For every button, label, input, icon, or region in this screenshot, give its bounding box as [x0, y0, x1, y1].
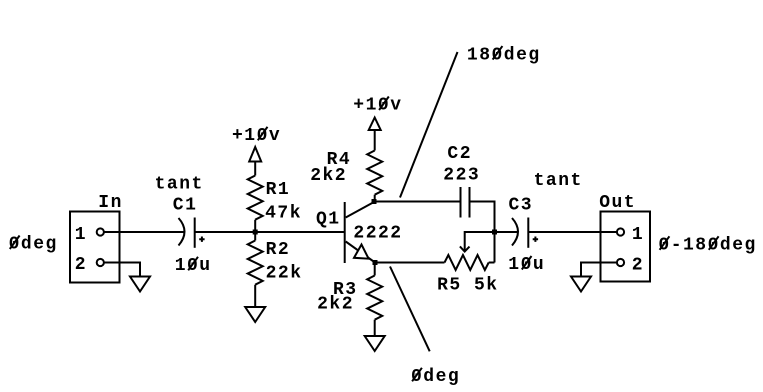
node base divider junction — [253, 230, 258, 235]
node emitter — [373, 260, 378, 265]
power +10v arrow R4 — [369, 118, 381, 151]
slashed zero strokes — [10, 46, 719, 381]
svg-text:Out: Out — [599, 193, 636, 213]
wire C3 to Out pin1 — [528, 231, 617, 233]
svg-text:+10v: +10v — [232, 126, 281, 146]
value 2222 — [353, 224, 402, 244]
pin number 2 Out — [632, 256, 644, 276]
svg-text:10u: 10u — [175, 256, 212, 276]
value 10u C3 — [508, 255, 545, 275]
label Q1 — [316, 210, 341, 230]
wire R1 to node — [254, 220, 256, 232]
label Out — [599, 193, 636, 213]
ground at Out pin2 — [571, 277, 591, 292]
transistor Q1 2222 — [345, 202, 375, 263]
svg-text:0deg: 0deg — [9, 235, 58, 255]
wire emitter to R5 — [375, 262, 445, 264]
label tant C3 — [534, 171, 583, 191]
label R1 — [266, 180, 291, 200]
wire collector to C2 — [374, 201, 461, 203]
label C3 — [509, 195, 534, 215]
svg-text:R2: R2 — [266, 240, 291, 260]
wire Out pin2 to ground — [581, 263, 617, 277]
ground below R2 — [245, 307, 265, 322]
svg-text:R5 5k: R5 5k — [437, 275, 499, 295]
capacitor C1 polarized tant 10u — [179, 218, 205, 248]
pin number 1 Out — [632, 225, 644, 245]
power +10v arrow R1 — [249, 147, 261, 176]
svg-text:Q1: Q1 — [316, 210, 341, 230]
connector In pin 2 circle — [97, 259, 104, 266]
label +10v R4 — [353, 96, 402, 116]
svg-text:0deg: 0deg — [411, 367, 460, 387]
wire C1 to base node — [195, 231, 345, 233]
resistor R1 47k — [248, 176, 263, 220]
label R5 5k — [437, 275, 499, 295]
connector In pin 1 circle — [97, 228, 104, 235]
svg-text:223: 223 — [443, 166, 480, 186]
callout line to 180deg — [400, 52, 458, 198]
svg-text:R1: R1 — [266, 180, 291, 200]
ground at In pin2 — [130, 277, 150, 292]
resistor R4 2k2 — [367, 151, 382, 202]
wire In pin2 to ground — [104, 263, 140, 277]
capacitor C3 polarized tant 10u — [512, 218, 538, 248]
svg-text:22k: 22k — [266, 264, 303, 284]
wire junction to C3 — [495, 231, 519, 233]
label R4 — [327, 150, 352, 170]
label In — [98, 193, 123, 213]
label R2 — [266, 240, 291, 260]
svg-text:180deg: 180deg — [467, 45, 541, 65]
value 22k — [266, 264, 303, 284]
svg-text:C3: C3 — [509, 195, 534, 215]
svg-text:tant: tant — [155, 175, 204, 195]
label 0deg output — [411, 367, 460, 387]
R5 wiper arrow — [460, 232, 495, 252]
connector Out pin 2 circle — [617, 259, 624, 266]
svg-text:C2: C2 — [447, 144, 472, 164]
callout line to 0deg — [390, 267, 430, 352]
svg-text:47k: 47k — [265, 203, 302, 223]
value 2k2 R4 — [310, 166, 347, 186]
label C2 — [447, 144, 472, 164]
connector J1 In body — [70, 212, 120, 283]
label 180deg — [467, 45, 541, 65]
svg-text:In: In — [98, 193, 123, 213]
capacitor C2 223 — [461, 187, 470, 218]
pin number 1 In — [75, 225, 87, 245]
label 0deg input — [9, 235, 58, 255]
svg-text:tant: tant — [534, 171, 583, 191]
connector J2 Out body — [601, 212, 651, 282]
svg-text:1: 1 — [75, 225, 87, 245]
value 10u C1 — [175, 256, 212, 276]
svg-text:2k2: 2k2 — [310, 166, 347, 186]
value 2k2 R3 — [317, 295, 354, 315]
wire C2 to C3 junction — [470, 202, 495, 263]
connector Out pin 1 circle — [617, 228, 624, 235]
resistor R3 2k2 — [367, 263, 382, 337]
svg-text:0-180deg: 0-180deg — [658, 236, 756, 256]
svg-text:C1: C1 — [173, 195, 198, 215]
svg-text:2: 2 — [75, 255, 87, 275]
svg-text:2: 2 — [632, 256, 644, 276]
svg-text:2k2: 2k2 — [317, 295, 354, 315]
label +10v R1 — [232, 126, 281, 146]
svg-text:2222: 2222 — [353, 224, 402, 244]
ground below R3 — [365, 336, 385, 351]
node collector — [372, 199, 377, 204]
label R3 — [333, 280, 358, 300]
svg-text:1: 1 — [632, 225, 644, 245]
wire In pin1 to C1 — [104, 231, 185, 233]
label tant C1 — [155, 175, 204, 195]
value 223 — [443, 166, 480, 186]
label 0-180deg — [658, 236, 756, 256]
svg-text:10u: 10u — [508, 255, 545, 275]
resistor R5 5k potentiometer — [445, 255, 495, 270]
value 47k — [265, 203, 302, 223]
node C3 junction — [492, 230, 497, 235]
svg-text:+10v: +10v — [353, 96, 402, 116]
pin number 2 In — [75, 255, 87, 275]
label C1 — [173, 195, 198, 215]
resistor R2 22k — [248, 232, 263, 307]
